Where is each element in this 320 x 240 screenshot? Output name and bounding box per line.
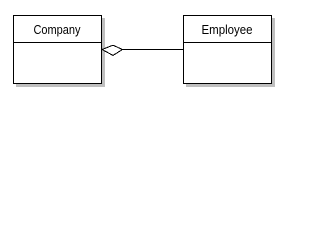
class Employee shadow — [186, 18, 275, 87]
class Company compartment divider — [13, 42, 102, 44]
class Employee box — [184, 16, 272, 84]
class Company box — [14, 16, 102, 84]
svg-text:Employee: Employee — [202, 22, 253, 37]
association wire Company-Employee — [123, 49, 184, 51]
aggregation diamond at Company end — [102, 45, 123, 55]
class Employee compartment divider — [183, 42, 272, 44]
class Company shadow — [16, 18, 105, 87]
svg-text:Company: Company — [34, 22, 81, 37]
